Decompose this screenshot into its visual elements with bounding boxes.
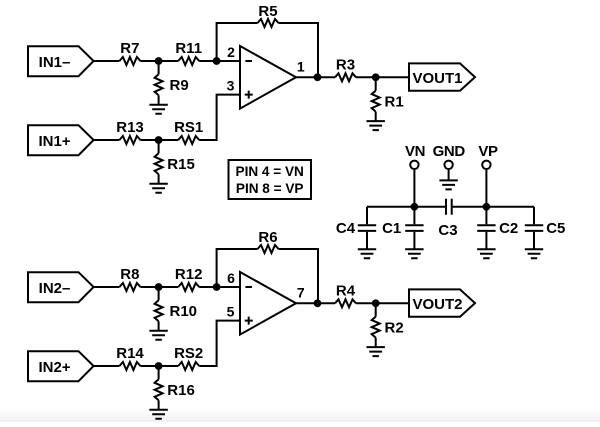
svg-text:1: 1 <box>297 58 305 74</box>
svg-text:C2: C2 <box>499 220 518 237</box>
wire <box>140 139 178 141</box>
wire <box>140 286 178 288</box>
net label IN2+ <box>28 351 94 381</box>
svg-text:PIN 4 = VN: PIN 4 = VN <box>236 164 304 179</box>
pin 6 label <box>227 270 235 286</box>
svg-text:R2: R2 <box>385 319 404 336</box>
svg-text:2: 2 <box>227 44 235 60</box>
resistor R3 <box>335 57 356 82</box>
node junction <box>155 136 163 144</box>
svg-text:6: 6 <box>227 270 235 286</box>
svg-text:IN2+: IN2+ <box>38 359 70 376</box>
wire <box>296 76 335 78</box>
wire <box>94 365 120 367</box>
svg-text:R14: R14 <box>116 345 144 362</box>
resistor RS2 <box>174 345 203 370</box>
ground <box>149 331 167 340</box>
svg-text:R8: R8 <box>120 266 139 283</box>
svg-text:PIN 8 = VP: PIN 8 = VP <box>236 181 304 196</box>
wire <box>217 249 258 287</box>
resistor R13 <box>116 119 144 144</box>
node junction <box>314 299 322 307</box>
svg-text:R12: R12 <box>175 266 203 283</box>
pin 2 label <box>227 44 235 60</box>
node junction <box>155 283 163 291</box>
wire <box>367 206 446 208</box>
capacitor C2 <box>477 207 518 249</box>
node junction <box>213 283 221 291</box>
net label IN1- <box>28 46 94 76</box>
svg-text:3: 3 <box>227 78 235 94</box>
wire <box>279 23 319 77</box>
wire <box>199 286 240 288</box>
svg-text:R13: R13 <box>116 119 144 136</box>
net label IN2- <box>28 272 94 302</box>
resistor R5 <box>258 3 279 27</box>
svg-text:C3: C3 <box>438 222 457 239</box>
resistor R1 <box>372 77 404 121</box>
ground <box>149 184 167 193</box>
svg-text:RS1: RS1 <box>174 119 203 136</box>
svg-text:IN1–: IN1– <box>39 54 71 71</box>
wire <box>140 60 178 62</box>
wire <box>94 139 120 141</box>
ground <box>149 105 167 114</box>
node junction <box>372 299 380 307</box>
wire <box>452 206 534 208</box>
wire <box>140 365 178 367</box>
wire <box>296 302 335 304</box>
wire <box>356 302 409 304</box>
svg-text:R9: R9 <box>170 77 189 94</box>
svg-text:R15: R15 <box>167 156 195 173</box>
ground <box>525 249 543 258</box>
wire <box>485 169 487 207</box>
net label VOUT1 <box>409 63 475 90</box>
svg-text:R11: R11 <box>175 40 202 57</box>
net label IN1+ <box>28 125 94 155</box>
svg-text:R5: R5 <box>258 3 277 20</box>
terminal VN <box>405 143 425 169</box>
svg-text:VN: VN <box>405 143 425 160</box>
pin 7 label <box>297 284 305 300</box>
ground <box>477 249 495 258</box>
svg-text:VOUT2: VOUT2 <box>412 296 462 313</box>
node junction <box>483 203 491 211</box>
ground <box>367 121 385 130</box>
net label VOUT2 <box>409 289 475 316</box>
svg-text:R10: R10 <box>170 303 198 320</box>
resistor R11 <box>175 40 202 65</box>
ground <box>358 249 376 258</box>
svg-text:R7: R7 <box>120 40 139 57</box>
resistor R14 <box>116 345 144 370</box>
resistor R9 <box>155 61 189 105</box>
terminal GND <box>433 143 466 169</box>
note box PIN 4 = VN / PIN 8 = VP <box>229 160 312 199</box>
svg-text:R6: R6 <box>258 229 277 246</box>
ground <box>149 410 167 419</box>
svg-text:5: 5 <box>227 304 235 320</box>
resistor R8 <box>119 266 140 291</box>
pin 3 label <box>227 78 235 94</box>
ground <box>439 180 457 189</box>
svg-text:R4: R4 <box>336 283 356 300</box>
resistor R4 <box>335 283 356 308</box>
svg-text:VP: VP <box>478 143 498 160</box>
wire <box>279 249 319 303</box>
wire <box>356 76 409 78</box>
svg-text:R3: R3 <box>336 57 355 74</box>
wire <box>413 169 415 207</box>
node junction <box>155 362 163 370</box>
svg-text:C4: C4 <box>336 220 356 237</box>
wire <box>217 23 258 61</box>
wire <box>94 60 120 62</box>
wire <box>199 60 240 62</box>
svg-text:C5: C5 <box>546 220 565 237</box>
resistor R6 <box>258 229 279 253</box>
resistor R10 <box>155 287 197 331</box>
svg-text:VOUT1: VOUT1 <box>412 70 462 87</box>
node junction <box>314 73 322 81</box>
svg-text:RS2: RS2 <box>174 345 203 362</box>
wire <box>199 321 240 366</box>
wire <box>94 286 120 288</box>
pin 1 label <box>297 58 305 74</box>
svg-text:C1: C1 <box>382 220 401 237</box>
wire <box>448 169 450 180</box>
pin 5 label <box>227 304 235 320</box>
capacitor C1 <box>382 207 423 249</box>
svg-text:R16: R16 <box>167 382 195 399</box>
resistor R12 <box>175 266 203 291</box>
capacitor C4 <box>336 207 376 249</box>
resistor R7 <box>119 40 140 65</box>
capacitor C3 <box>438 199 457 239</box>
capacitor C5 <box>525 207 566 249</box>
resistor R16 <box>155 366 195 410</box>
terminal VP <box>478 143 498 169</box>
op-amp U1A <box>240 46 296 109</box>
ground <box>405 249 423 258</box>
node junction <box>155 57 163 65</box>
svg-text:IN2–: IN2– <box>39 280 71 297</box>
svg-text:7: 7 <box>297 284 305 300</box>
wire <box>199 95 240 140</box>
node junction <box>411 203 419 211</box>
op-amp U1B <box>240 272 296 335</box>
svg-text:IN1+: IN1+ <box>38 133 70 150</box>
resistor RS1 <box>174 119 203 144</box>
node junction <box>372 73 380 81</box>
ground <box>367 347 385 356</box>
svg-text:GND: GND <box>433 143 466 160</box>
svg-text:R1: R1 <box>385 93 404 110</box>
resistor R15 <box>155 140 195 184</box>
node junction <box>213 57 221 65</box>
resistor R2 <box>372 303 404 347</box>
